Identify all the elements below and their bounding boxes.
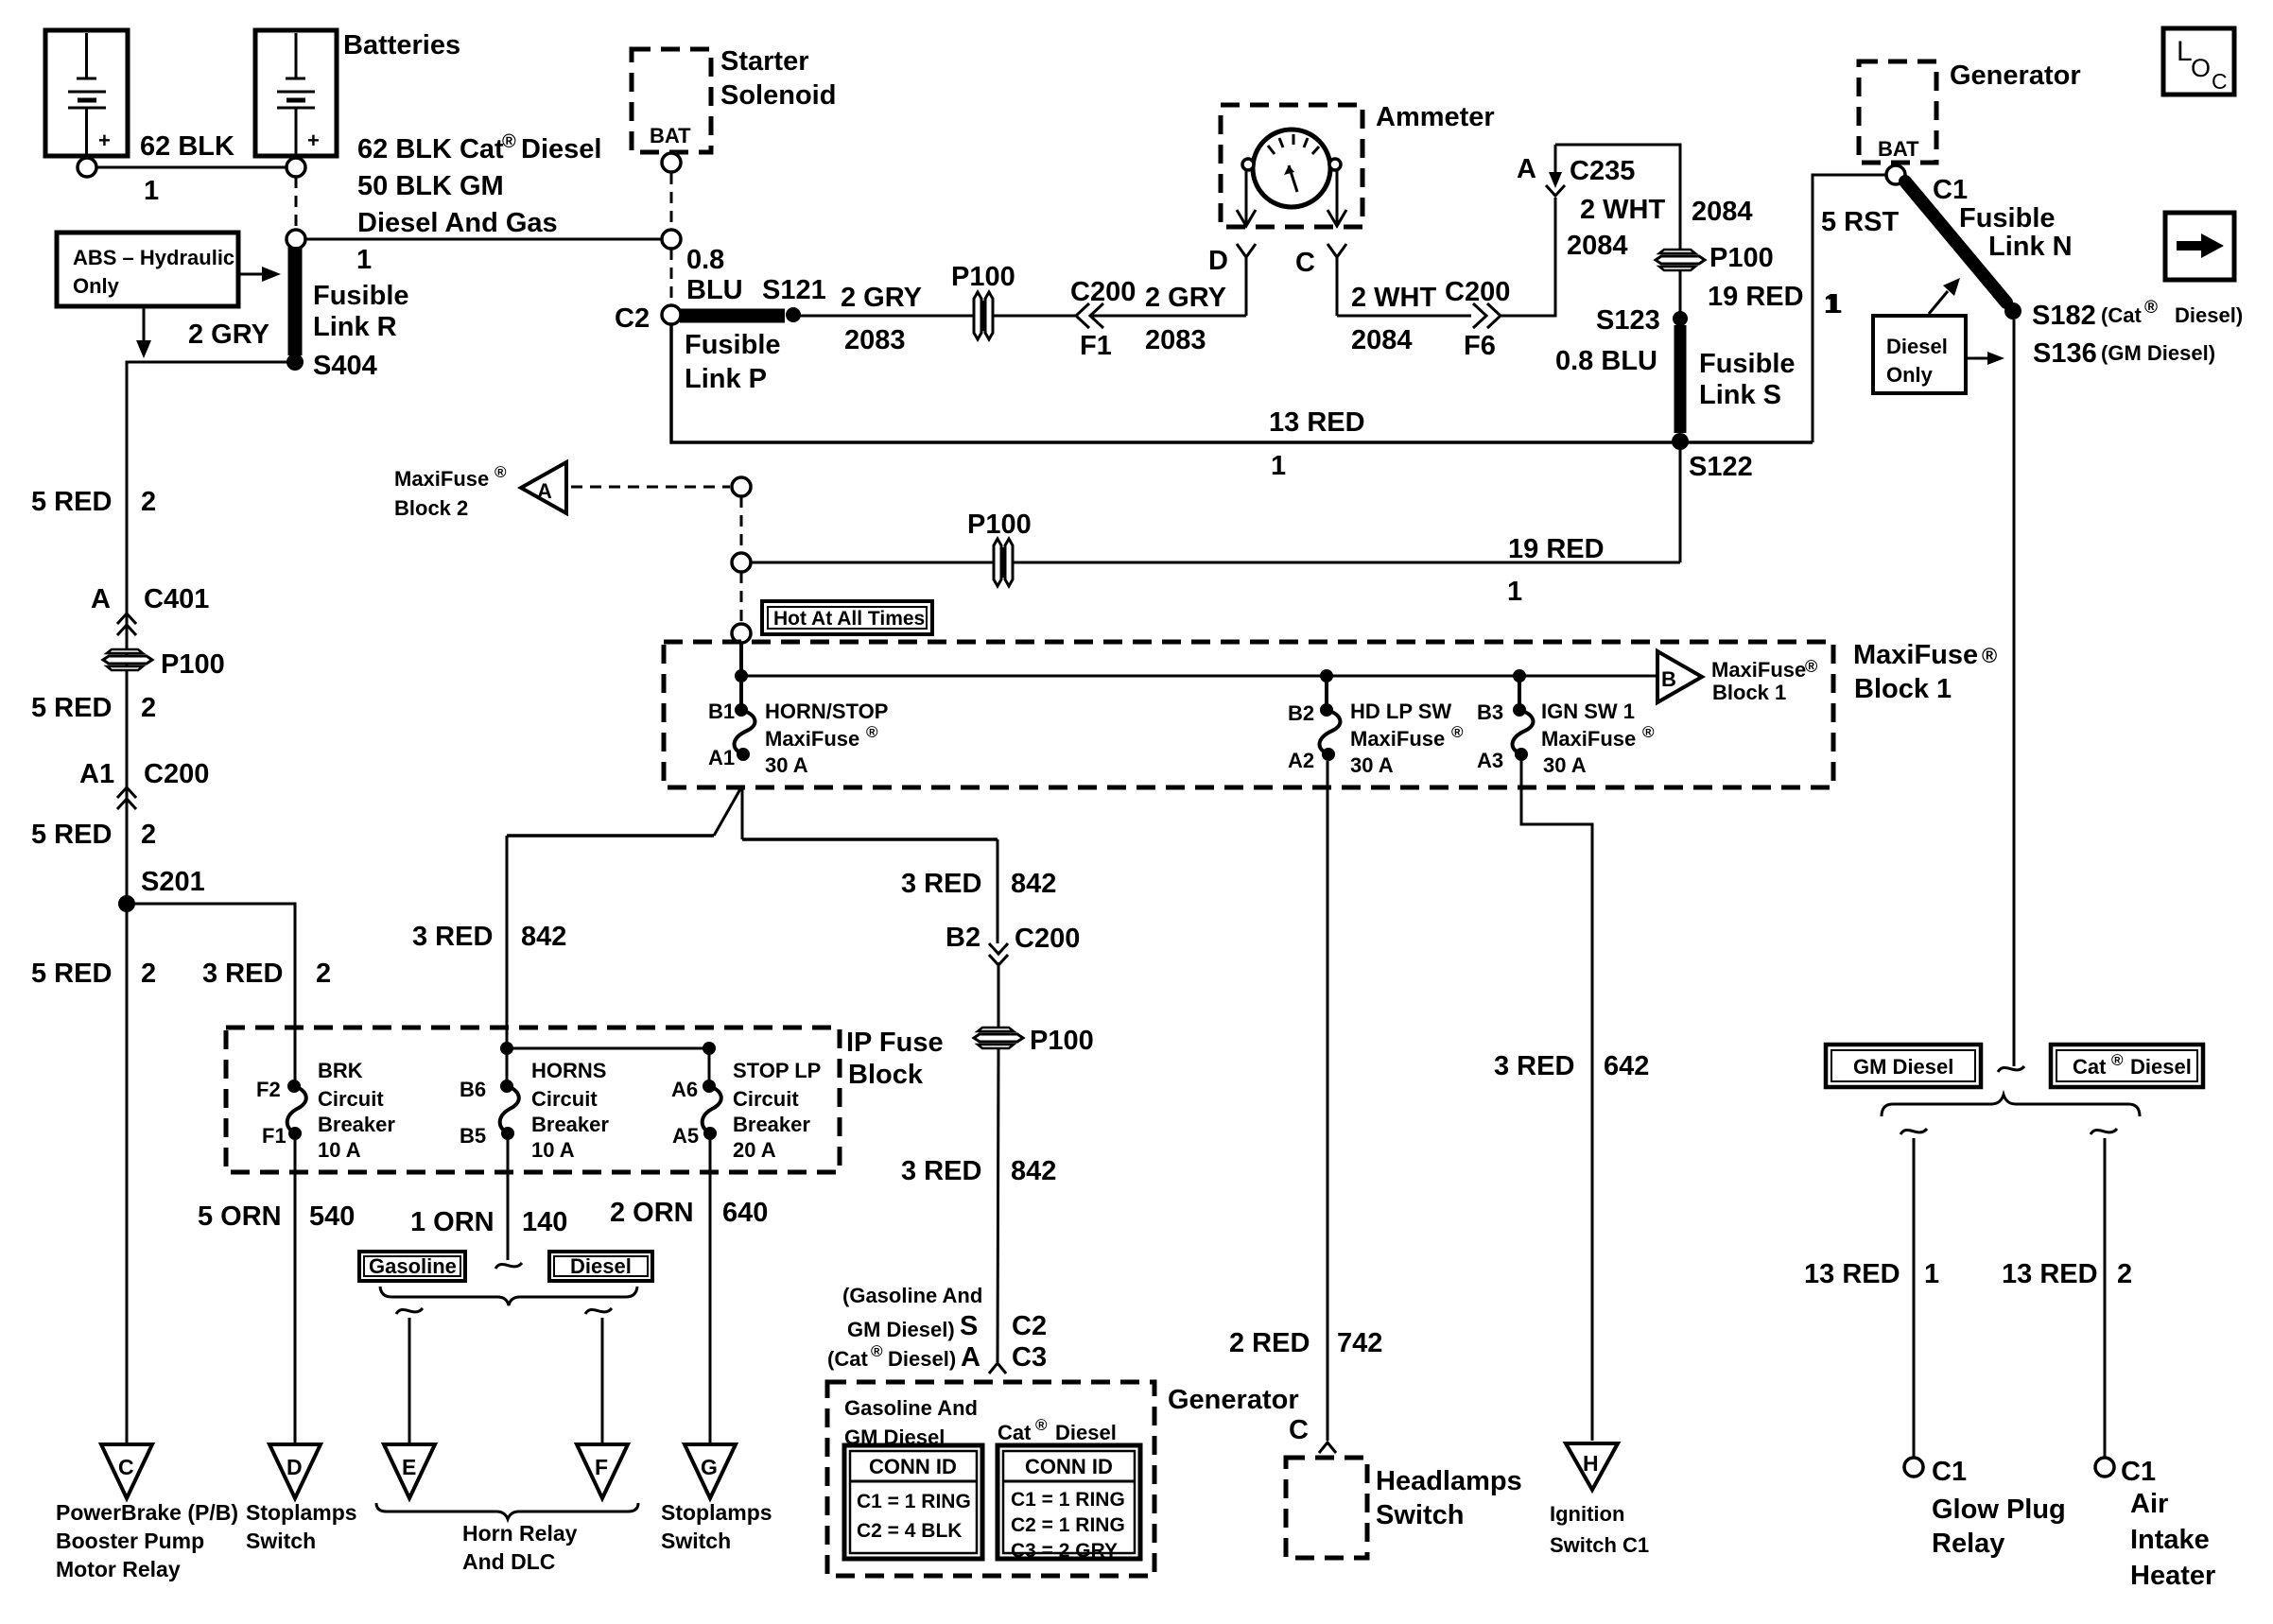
svg-text:®: ®: [1035, 1416, 1048, 1434]
svg-text:1: 1: [356, 245, 372, 275]
wire A3 ignition: [1521, 761, 1592, 1441]
svg-text:C1 = 1 RING: C1 = 1 RING: [857, 1491, 971, 1512]
node S122: [1672, 433, 1689, 450]
wire air intake: [2104, 1138, 2107, 1457]
svg-text:(Cat: (Cat: [827, 1347, 868, 1371]
svg-text:PowerBrake (P/B): PowerBrake (P/B): [56, 1500, 238, 1525]
svg-text:BAT: BAT: [1878, 137, 1919, 161]
node S201: [118, 895, 135, 912]
svg-text:Block 1: Block 1: [1854, 674, 1952, 704]
node S121: [786, 307, 801, 322]
triangle C: [101, 1444, 152, 1498]
connector A C235: [1517, 145, 1635, 196]
svg-text:62 BLK Cat: 62 BLK Cat: [357, 134, 504, 164]
svg-text:IGN SW 1: IGN SW 1: [1541, 700, 1635, 723]
svg-text:C: C: [118, 1455, 134, 1479]
svg-text:3 RED: 3 RED: [901, 1156, 981, 1186]
svg-text:Glow Plug: Glow Plug: [1932, 1494, 2066, 1525]
svg-text:C2: C2: [1012, 1311, 1047, 1341]
svg-text:H: H: [1583, 1451, 1599, 1476]
node horns branch right: [703, 1042, 716, 1055]
svg-text:®: ®: [871, 1342, 883, 1360]
ammeter box: [1221, 105, 1362, 227]
svg-text:Block 2: Block 2: [394, 496, 468, 520]
node bus B3: [1513, 669, 1526, 682]
arrow diesel-only to wire: [1968, 352, 2004, 365]
svg-text:C401: C401: [144, 584, 209, 614]
svg-text:Breaker: Breaker: [318, 1113, 395, 1136]
svg-text:2: 2: [2117, 1259, 2132, 1289]
connector A1 C200 chevrons: [79, 759, 209, 809]
headlamps switch box: [1286, 1458, 1367, 1558]
svg-text:Diesel): Diesel): [888, 1347, 956, 1371]
diesel only box: [1873, 316, 1966, 393]
svg-text:2 GRY: 2 GRY: [1145, 283, 1226, 313]
svg-text:5 RED: 5 RED: [31, 487, 112, 517]
terminal glow plug: [1904, 1458, 1923, 1477]
connector C200 F1 chevrons: [1070, 277, 1136, 361]
svg-text:Diesel: Diesel: [1886, 335, 1948, 358]
node S404: [286, 354, 304, 371]
svg-text:C1: C1: [1932, 1457, 1967, 1487]
svg-text:+: +: [307, 129, 320, 152]
svg-text:A3: A3: [1477, 749, 1503, 772]
fusible link N: [1905, 181, 2006, 302]
circuit breaker box: [226, 1028, 840, 1172]
svg-text:0.8: 0.8: [686, 245, 724, 275]
svg-text:A5: A5: [672, 1124, 699, 1148]
svg-text:®: ®: [1982, 644, 1997, 667]
svg-text:2083: 2083: [1145, 325, 1206, 355]
svg-text:2 WHT: 2 WHT: [1580, 195, 1666, 225]
wire 62/50 BLK to starter: [305, 238, 662, 241]
triangle E: [384, 1444, 435, 1498]
svg-text:Circuit: Circuit: [318, 1087, 384, 1111]
node top: [732, 477, 751, 496]
horns branch wire: [507, 1048, 709, 1087]
LOC box: [2163, 28, 2234, 95]
svg-text:Circuit: Circuit: [733, 1087, 799, 1111]
wire to C200: [993, 315, 1075, 318]
arrow C inside box: [1327, 170, 1346, 226]
svg-text:MaxiFuse: MaxiFuse: [765, 727, 859, 751]
svg-text:C2 = 1 RING: C2 = 1 RING: [1011, 1514, 1125, 1536]
svg-text:MaxiFuse: MaxiFuse: [1350, 727, 1445, 751]
svg-text:Cat: Cat: [2073, 1055, 2107, 1079]
node junction: [662, 230, 681, 249]
connector chevron headlamps C: [1319, 1443, 1336, 1453]
svg-text:®: ®: [495, 463, 507, 481]
connector Y C: [1295, 244, 1346, 316]
connector A C401 chevrons: [91, 584, 209, 635]
svg-text:C1 = 1 RING: C1 = 1 RING: [1011, 1489, 1125, 1511]
svg-text:C: C: [2212, 69, 2228, 94]
triangle G: [685, 1444, 736, 1498]
Cat diesel box: [2051, 1045, 2203, 1087]
svg-text:A6: A6: [671, 1078, 698, 1101]
wire 2 GRY 2083 to D: [1092, 315, 1246, 318]
svg-text:MaxiFuse: MaxiFuse: [1711, 658, 1806, 682]
generator box bottom: [827, 1382, 1154, 1576]
node at S404 top: [286, 230, 305, 249]
svg-text:Only: Only: [1886, 363, 1934, 387]
node hot: [732, 624, 751, 643]
svg-text:P100: P100: [1709, 243, 1774, 273]
fusible link R: [288, 247, 303, 355]
node C2: [662, 305, 681, 324]
triangle F: [577, 1444, 628, 1498]
svg-text:B3: B3: [1477, 700, 1503, 724]
wire hot node into box: [739, 643, 743, 709]
svg-text:2 GRY: 2 GRY: [841, 283, 922, 313]
svg-text:Starter: Starter: [720, 46, 809, 77]
svg-text:(Cat: (Cat: [2101, 303, 2142, 327]
wire top to P100: [1555, 145, 1680, 250]
svg-text:S201: S201: [141, 867, 205, 897]
svg-text:P100: P100: [161, 649, 225, 680]
svg-text:Diesel: Diesel: [1055, 1421, 1117, 1444]
node S123: [1673, 311, 1688, 326]
svg-text:3 RED: 3 RED: [901, 869, 981, 899]
svg-text:10 A: 10 A: [531, 1138, 575, 1162]
svg-text:3 RED: 3 RED: [412, 922, 493, 952]
svg-text:S123: S123: [1596, 305, 1660, 336]
svg-text:C: C: [1295, 248, 1315, 278]
svg-text:Intake: Intake: [2130, 1525, 2210, 1555]
svg-text:1: 1: [1924, 1259, 1939, 1289]
svg-text:10 A: 10 A: [318, 1138, 361, 1162]
svg-text:5 RED: 5 RED: [31, 820, 112, 850]
generator box top: [1859, 61, 1936, 163]
svg-text:Breaker: Breaker: [531, 1113, 609, 1136]
svg-text:Hot At All Times: Hot At All Times: [773, 608, 925, 630]
triangle D: [269, 1444, 321, 1498]
svg-text:Ammeter: Ammeter: [1376, 102, 1495, 132]
svg-text:C2 = 4 BLK: C2 = 4 BLK: [857, 1520, 962, 1542]
svg-text:GM Diesel: GM Diesel: [1853, 1055, 1953, 1079]
svg-text:20 A: 20 A: [733, 1138, 776, 1162]
breaker HORNS B6 B5: [460, 1059, 609, 1162]
node generator BAT: [1886, 165, 1905, 184]
svg-text:BAT: BAT: [650, 124, 691, 147]
arrow diesel-only to link N: [1929, 278, 1960, 314]
svg-text:2: 2: [316, 959, 331, 989]
wire P100 to S123: [1679, 270, 1682, 315]
svg-text:Generator: Generator: [1168, 1385, 1299, 1415]
fusible link P: [680, 309, 785, 323]
svg-text:D: D: [286, 1455, 303, 1479]
svg-text:E: E: [402, 1455, 416, 1479]
connector P100 flat ip: [974, 1026, 1094, 1056]
svg-text:A1: A1: [708, 746, 735, 769]
svg-text:®: ®: [866, 723, 878, 741]
svg-text:Switch: Switch: [246, 1529, 316, 1553]
svg-text:C1: C1: [1933, 175, 1968, 205]
gasoline box: [359, 1252, 465, 1281]
svg-text:Stoplamps: Stoplamps: [246, 1500, 357, 1525]
triangle A maxifuse block2: [521, 462, 566, 513]
svg-text:Switch: Switch: [661, 1529, 731, 1553]
dashed wire A to node: [571, 486, 730, 489]
svg-text:C: C: [1289, 1415, 1309, 1445]
svg-text:2 RED: 2 RED: [1229, 1328, 1310, 1358]
svg-text:742: 742: [1337, 1328, 1382, 1358]
conn id table 2: [998, 1445, 1140, 1562]
svg-text:Generator: Generator: [1950, 60, 2081, 91]
tilde F: [585, 1308, 612, 1314]
svg-text:2083: 2083: [844, 325, 906, 355]
svg-text:C2: C2: [615, 303, 650, 334]
svg-text:842: 842: [1011, 1156, 1056, 1186]
wire A1 down split: [507, 787, 998, 839]
svg-text:Switch: Switch: [1376, 1500, 1464, 1530]
svg-text:F: F: [595, 1455, 608, 1479]
svg-text:Motor Relay: Motor Relay: [56, 1557, 181, 1581]
svg-text:140: 140: [522, 1207, 567, 1237]
svg-text:Gasoline And: Gasoline And: [844, 1396, 978, 1420]
svg-text:Diesel: Diesel: [2130, 1055, 2192, 1079]
wire S182 down: [2013, 320, 2016, 1066]
wire 2 GRY 2083: [800, 315, 974, 318]
svg-text:HORNS: HORNS: [531, 1059, 606, 1082]
svg-text:B2: B2: [946, 923, 980, 953]
svg-text:Stoplamps: Stoplamps: [661, 1500, 772, 1525]
svg-text:C235: C235: [1570, 156, 1635, 186]
svg-text:2: 2: [141, 487, 156, 517]
node bus B1: [735, 669, 748, 682]
triangle B maxifuse block1: [1657, 651, 1817, 704]
svg-text:HORN/STOP: HORN/STOP: [765, 700, 888, 723]
connector B2 C200 chevrons down: [946, 923, 1080, 965]
triangle H ignition: [1566, 1443, 1618, 1490]
svg-text:30 A: 30 A: [1543, 753, 1587, 777]
svg-text:Block: Block: [848, 1060, 924, 1090]
node S182: [2004, 302, 2021, 320]
svg-text:842: 842: [521, 922, 566, 952]
svg-text:Solenoid: Solenoid: [720, 80, 836, 111]
svg-text:642: 642: [1604, 1051, 1649, 1081]
svg-text:CONN ID: CONN ID: [869, 1455, 957, 1478]
wire dashed battery2 down: [295, 177, 298, 230]
svg-text:Circuit: Circuit: [531, 1087, 598, 1111]
svg-text:640: 640: [722, 1198, 768, 1228]
svg-text:30 A: 30 A: [765, 753, 808, 777]
connector C200 F6 chevrons: [1445, 277, 1510, 361]
svg-text:A2: A2: [1288, 749, 1314, 772]
wire 2 WHT 2084: [1337, 315, 1471, 318]
wire to E: [408, 1318, 411, 1443]
svg-text:Gasoline: Gasoline: [369, 1254, 457, 1278]
ABS box: [57, 233, 238, 306]
svg-text:5 RST: 5 RST: [1821, 207, 1899, 237]
svg-text:1: 1: [1507, 577, 1522, 607]
bus wire: [741, 675, 1657, 678]
svg-text:13 RED: 13 RED: [1804, 1259, 1900, 1289]
svg-text:2 WHT: 2 WHT: [1351, 283, 1437, 313]
svg-text:G: G: [701, 1455, 718, 1479]
svg-text:Fusible: Fusible: [1699, 349, 1796, 379]
wire F1 down to D: [294, 1140, 297, 1443]
svg-text:A: A: [961, 1342, 980, 1373]
battery 2: [255, 30, 337, 177]
svg-text:F2: F2: [256, 1078, 281, 1101]
svg-text:13 RED: 13 RED: [2002, 1259, 2098, 1289]
svg-text:5 RED: 5 RED: [31, 959, 112, 989]
svg-text:CONN ID: CONN ID: [1025, 1455, 1113, 1478]
svg-text:(GM Diesel): (GM Diesel): [2101, 341, 2215, 365]
svg-text:C200: C200: [144, 759, 209, 789]
svg-text:P100: P100: [1030, 1026, 1094, 1056]
dashed down: [740, 496, 743, 553]
wire B5 down: [507, 1140, 510, 1260]
svg-text:0.8 BLU: 0.8 BLU: [1555, 346, 1657, 376]
svg-text:Relay: Relay: [1932, 1529, 2004, 1559]
svg-text:1: 1: [1271, 451, 1286, 481]
svg-text:B2: B2: [1288, 701, 1314, 725]
wire 5 RST: [1813, 175, 1886, 442]
svg-text:13 RED: 13 RED: [1269, 407, 1365, 438]
svg-text:STOP LP: STOP LP: [733, 1059, 821, 1082]
fuse B1 HORN/STOP: [708, 700, 888, 777]
svg-text:S: S: [960, 1311, 978, 1341]
conn id table 1: [844, 1445, 982, 1559]
svg-text:Heater: Heater: [2130, 1561, 2215, 1591]
svg-text:5 RED: 5 RED: [31, 693, 112, 723]
GM diesel box: [1826, 1045, 1981, 1087]
wire 19 RED: [751, 561, 1680, 564]
svg-text:2084: 2084: [1692, 197, 1753, 227]
svg-text:62 BLK: 62 BLK: [140, 131, 234, 162]
node bus B2: [1320, 669, 1333, 682]
terminal air intake: [2095, 1458, 2114, 1477]
svg-text:2: 2: [141, 693, 156, 723]
node mid: [732, 553, 751, 572]
svg-text:D: D: [1208, 246, 1228, 276]
svg-text:19 RED: 19 RED: [1708, 282, 1804, 312]
svg-text:®: ®: [1805, 657, 1817, 676]
wire down to generator: [998, 1049, 998, 1362]
svg-text:(Gasoline And: (Gasoline And: [842, 1284, 982, 1307]
svg-text:ABS – Hydraulic: ABS – Hydraulic: [73, 246, 234, 269]
svg-text:5 ORN: 5 ORN: [198, 1201, 282, 1232]
svg-text:Switch C1: Switch C1: [1550, 1533, 1649, 1557]
svg-text:MaxiFuse: MaxiFuse: [1541, 727, 1636, 751]
brace diesel split: [1882, 1095, 2140, 1116]
svg-text:B1: B1: [708, 700, 735, 723]
svg-text:B: B: [1661, 667, 1676, 691]
svg-text:1: 1: [1824, 289, 1839, 320]
tilde air intake: [2091, 1129, 2117, 1134]
wire 3 RED 842 to horns: [506, 836, 509, 1087]
connector P100 inline 19RED: [967, 510, 1032, 586]
tilde glow plug: [1900, 1129, 1927, 1134]
svg-text:C3 = 2 GRY: C3 = 2 GRY: [1011, 1540, 1118, 1562]
svg-text:Block 1: Block 1: [1712, 681, 1786, 704]
svg-text:2: 2: [141, 959, 156, 989]
tilde break B5: [495, 1263, 522, 1269]
wire ip fuse column: [997, 839, 999, 943]
svg-text:Link N: Link N: [1988, 232, 2073, 262]
starter solenoid box: [632, 49, 711, 152]
svg-text:S182: S182: [2032, 301, 2096, 331]
dashed down 2: [740, 572, 743, 623]
wire A5 down to G: [709, 1140, 712, 1443]
svg-text:C200: C200: [1015, 924, 1080, 954]
svg-text:C200: C200: [1445, 277, 1510, 307]
svg-text:2084: 2084: [1567, 231, 1628, 261]
svg-text:MaxiFuse: MaxiFuse: [1853, 640, 1978, 670]
svg-text:®: ®: [2111, 1051, 2124, 1069]
svg-text:®: ®: [1642, 723, 1655, 741]
connector P100 flat: [1656, 243, 1774, 273]
svg-text:Fusible: Fusible: [313, 281, 409, 311]
svg-text:S121: S121: [762, 275, 826, 305]
fuse B2 HD LP SW: [1288, 676, 1464, 777]
tilde break S182 wire: [1998, 1066, 2024, 1072]
wire dashed to C2: [670, 249, 673, 304]
svg-text:And DLC: And DLC: [462, 1549, 555, 1574]
wire to F: [601, 1318, 604, 1443]
node BAT terminal: [662, 153, 681, 172]
arrow ABS to link R: [238, 267, 281, 282]
brace horn relay: [376, 1503, 638, 1519]
svg-text:A1: A1: [79, 759, 114, 789]
breaker STOP LP A6 A5: [671, 1059, 821, 1162]
svg-text:A: A: [1517, 154, 1536, 184]
svg-text:MaxiFuse: MaxiFuse: [394, 467, 489, 491]
svg-text:BRK: BRK: [318, 1059, 363, 1082]
svg-text:3 RED: 3 RED: [1494, 1051, 1574, 1081]
svg-text:A: A: [537, 479, 552, 503]
svg-text:C1: C1: [2121, 1457, 2156, 1487]
fusible link S: [1674, 325, 1687, 433]
svg-text:Link P: Link P: [685, 364, 767, 394]
svg-text:Diesel): Diesel): [2175, 303, 2243, 327]
svg-text:30 A: 30 A: [1350, 753, 1394, 777]
ammeter gauge: [1253, 130, 1330, 207]
ammeter terminal D: [1242, 159, 1254, 170]
svg-text:HD LP SW: HD LP SW: [1350, 700, 1451, 723]
svg-text:Only: Only: [73, 274, 120, 298]
wire dashed solenoid: [670, 173, 673, 230]
svg-text:1: 1: [144, 176, 159, 206]
svg-text:O: O: [2191, 54, 2211, 82]
svg-text:F6: F6: [1464, 331, 1496, 361]
svg-text:A: A: [91, 584, 111, 614]
svg-text:1 ORN: 1 ORN: [410, 1207, 495, 1237]
svg-text:C200: C200: [1070, 277, 1136, 307]
breaker BRK F2 F1: [256, 1059, 395, 1162]
svg-text:Fusible: Fusible: [685, 330, 781, 360]
svg-text:Booster Pump: Booster Pump: [56, 1529, 204, 1553]
wire glow plug: [1913, 1138, 1916, 1457]
svg-text:Headlamps: Headlamps: [1376, 1466, 1522, 1496]
connector Y D: [1208, 244, 1256, 316]
svg-text:BLU: BLU: [686, 275, 743, 305]
node horns branch left: [500, 1042, 513, 1055]
svg-text:S404: S404: [313, 351, 377, 381]
svg-text:F1: F1: [1080, 331, 1112, 361]
svg-text:Breaker: Breaker: [733, 1113, 810, 1136]
svg-text:2 ORN: 2 ORN: [610, 1198, 694, 1228]
connector chevron generator C3: [989, 1363, 1006, 1373]
svg-text:F1: F1: [262, 1124, 286, 1148]
svg-text:Diesel And Gas: Diesel And Gas: [357, 208, 558, 238]
svg-text:3 RED: 3 RED: [202, 959, 283, 989]
arrow ABS down: [136, 306, 151, 358]
svg-text:Air: Air: [2130, 1489, 2168, 1519]
svg-text:P100: P100: [951, 262, 1015, 292]
